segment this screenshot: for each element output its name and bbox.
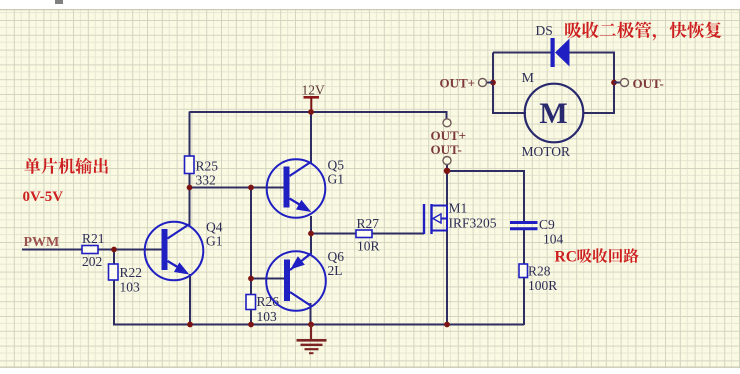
svg-text:MOTOR: MOTOR	[522, 144, 571, 159]
svg-text:R21: R21	[82, 231, 105, 246]
svg-text:OUT+: OUT+	[440, 76, 476, 91]
port OUT+ upper	[431, 119, 467, 143]
wire Q5 emitter node	[310, 216, 312, 234]
wire motor loop top left	[493, 52, 551, 54]
wire PWM input	[22, 249, 83, 251]
svg-text:IRF3205: IRF3205	[449, 216, 497, 231]
wire Q4 collector	[189, 188, 191, 227]
wire motor loop top right	[569, 53, 614, 114]
wire Q5 Q6 base link	[250, 188, 252, 279]
ground	[297, 325, 327, 354]
junction	[611, 80, 617, 86]
transistor Q6	[266, 249, 344, 311]
junction	[308, 322, 314, 328]
mosfet M1 IRF3205	[424, 201, 497, 235]
svg-text:R26: R26	[257, 294, 280, 309]
transistor Q5	[267, 158, 345, 218]
junction	[444, 168, 450, 174]
junction	[248, 276, 254, 282]
svg-text:R25: R25	[196, 159, 219, 174]
svg-text:0V-5V: 0V-5V	[23, 189, 64, 205]
annotation RC吸收回路	[555, 248, 639, 265]
svg-text:OUT-: OUT-	[431, 142, 462, 157]
wire Q4 emitter	[189, 274, 191, 325]
svg-text:G1: G1	[206, 234, 223, 249]
junction	[248, 322, 254, 328]
wire 12V rail	[190, 112, 447, 119]
diode DS	[536, 23, 570, 67]
wire Q6 base	[251, 278, 285, 280]
transistor Q4	[145, 220, 223, 281]
svg-text:G1: G1	[328, 172, 345, 187]
wire Q6 emitter	[310, 303, 312, 325]
junction	[248, 185, 254, 191]
port OUT- motor	[614, 76, 664, 91]
resistor R28	[519, 264, 557, 294]
port OUT- lower	[431, 142, 462, 165]
wire R28 to ground rail	[523, 277, 525, 325]
svg-text:M1: M1	[449, 201, 468, 216]
svg-text:OUT+: OUT+	[431, 128, 467, 143]
wire C9 to R28	[523, 229, 525, 265]
resistor R25	[185, 156, 219, 188]
wire Q6 collector	[310, 234, 312, 255]
port OUT+ motor	[440, 76, 494, 91]
wire M1 source	[446, 231, 448, 325]
annotation 单片机输出	[24, 158, 108, 174]
svg-text:100R: 100R	[528, 278, 557, 293]
junction	[444, 322, 450, 328]
junction	[490, 80, 496, 86]
svg-text:Q6: Q6	[328, 249, 345, 264]
svg-text:2L: 2L	[328, 263, 343, 278]
capacitor C9	[510, 217, 564, 247]
wire ground rail	[113, 324, 524, 326]
wire Q5 collector	[310, 112, 312, 163]
resistor R22	[109, 264, 143, 295]
svg-text:DS: DS	[536, 23, 553, 38]
wire motor loop left	[493, 53, 526, 114]
svg-text:PWM: PWM	[24, 235, 60, 250]
wire gate drive	[311, 233, 357, 235]
svg-text:Q5: Q5	[328, 158, 345, 173]
svg-text:RC: RC	[555, 249, 577, 266]
svg-text:R27: R27	[357, 216, 380, 231]
svg-text:202: 202	[82, 254, 102, 269]
resistor R21	[82, 231, 105, 269]
svg-text:Q4: Q4	[206, 220, 223, 235]
svg-text:12V: 12V	[302, 83, 326, 98]
wire R26 branch	[250, 279, 252, 325]
wire R22 branch	[113, 250, 115, 325]
wire R21 to Q4 base	[97, 249, 163, 251]
motor M	[522, 71, 584, 159]
svg-text:10R: 10R	[357, 239, 380, 254]
svg-text:332: 332	[196, 173, 216, 188]
svg-text:103: 103	[257, 309, 278, 324]
junction	[187, 185, 193, 191]
wire M1 drain	[446, 165, 448, 207]
junction	[187, 322, 193, 328]
resistor R26	[246, 294, 279, 324]
wire base drive	[190, 187, 285, 189]
svg-text:R22: R22	[120, 265, 143, 280]
resistor R27	[356, 216, 380, 254]
svg-text:M: M	[539, 97, 567, 130]
svg-text:104: 104	[543, 232, 564, 247]
annotation 吸收二极管 快恢复	[565, 22, 721, 41]
junction	[308, 231, 314, 237]
svg-text:M: M	[522, 71, 535, 86]
svg-text:R28: R28	[528, 264, 551, 279]
svg-text:OUT-: OUT-	[633, 76, 664, 91]
wire snubber branch	[447, 171, 524, 223]
junction	[308, 109, 314, 115]
junction	[111, 247, 117, 253]
wire R27 to gate	[371, 233, 424, 235]
svg-text:C9: C9	[539, 217, 555, 232]
power 12V	[302, 83, 326, 112]
svg-text:103: 103	[120, 280, 141, 295]
wire R25 branch	[189, 112, 191, 188]
